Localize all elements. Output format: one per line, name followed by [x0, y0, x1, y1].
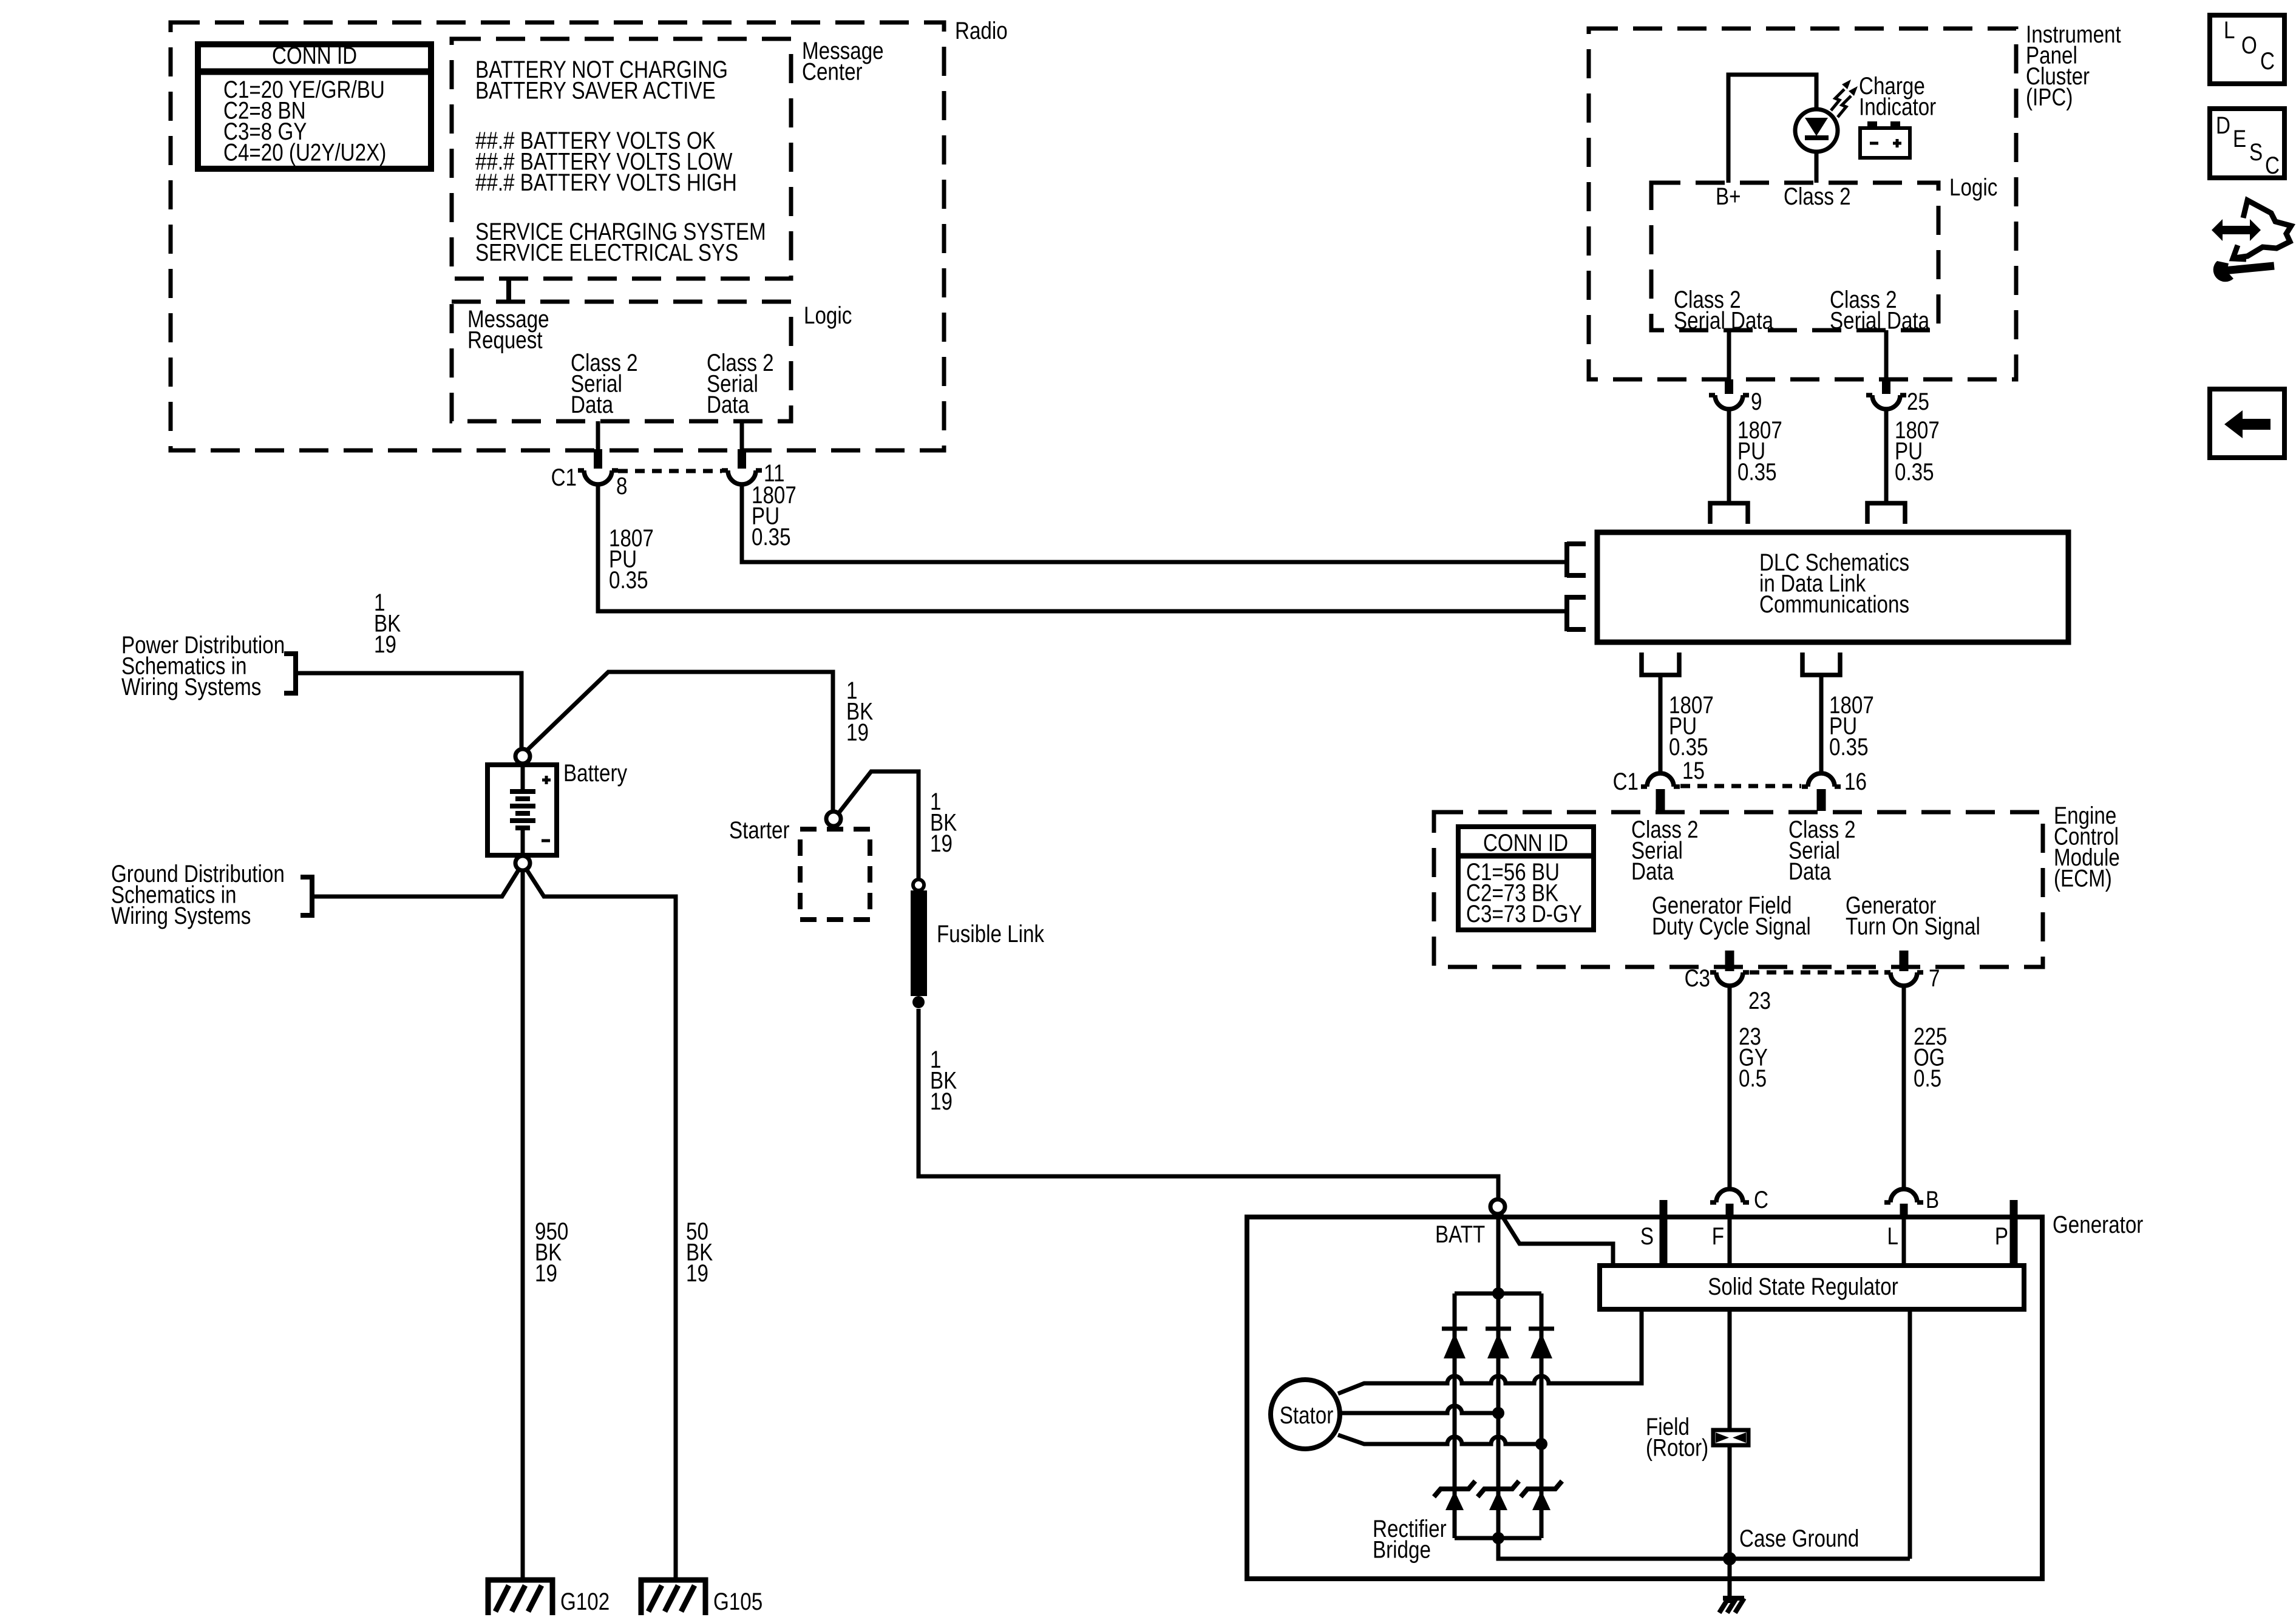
Generator box	[1247, 1217, 2042, 1579]
wire IPC logic to pin 25	[1884, 330, 1889, 379]
svg-text:9: 9	[1751, 388, 1762, 415]
battery internal top lead	[521, 765, 525, 791]
battery polarity -	[542, 839, 550, 842]
icon LOC box	[2210, 15, 2284, 84]
svg-text:Class 2: Class 2	[1784, 183, 1851, 209]
svg-text:Generator FieldDuty Cycle Sign: Generator FieldDuty Cycle Signal	[1652, 892, 1811, 940]
wire regulator L return to case ground	[1908, 1309, 1912, 1559]
svg-text:S: S	[1640, 1222, 1654, 1249]
svg-text:C: C	[2260, 47, 2275, 74]
svg-text:C1=56 BUC2=73 BKC3=73 D-GY: C1=56 BUC2=73 BKC3=73 D-GY	[1466, 858, 1582, 927]
svg-text:C3: C3	[1685, 964, 1710, 991]
svg-text:P: P	[1995, 1222, 2008, 1249]
rectifier diode D2 (middle top)	[1486, 1327, 1511, 1331]
wire BATT lead to regulator (S side)	[1500, 1213, 1613, 1263]
rectifier diode D3 (right top)	[1529, 1327, 1554, 1331]
svg-text:C1=20 YE/GR/BUC2=8 BNC3=8 GYC4: C1=20 YE/GR/BUC2=8 BNC3=8 GYC4=20 (U2Y/U…	[223, 76, 386, 166]
svg-text:7: 7	[1929, 964, 1940, 991]
pin C3-23 (ECM) male pin	[1725, 951, 1734, 971]
svg-text:Generator: Generator	[2053, 1211, 2143, 1238]
rectifier diode D1 (left top)	[1442, 1327, 1467, 1331]
svg-text:BATT: BATT	[1435, 1221, 1485, 1247]
wire stator phase 3 (bottom) to rectifier	[1338, 1435, 1541, 1444]
wire rectifier right branch	[1540, 1293, 1544, 1538]
svg-text:E: E	[2233, 125, 2246, 152]
svg-text:C1: C1	[1613, 768, 1639, 795]
charge indicator LED cathode bar	[1805, 135, 1829, 140]
ECM CONN ID header separator	[1461, 853, 1591, 859]
connector ID table (Radio CONN ID) outer box	[198, 44, 431, 169]
svg-text:ChargeIndicator: ChargeIndicator	[1859, 72, 1936, 120]
Solid State Regulator box	[1600, 1266, 2024, 1309]
wire rectifier top bus	[1455, 1292, 1541, 1296]
charge indicator LED diode triangle	[1805, 118, 1828, 136]
Field (Rotor) winding symbol	[1713, 1430, 1748, 1445]
svg-text:Class 2SerialData: Class 2SerialData	[1631, 816, 1699, 884]
svg-text:Starter: Starter	[729, 816, 790, 843]
wire B+ feed to charge indicator	[1728, 75, 1816, 183]
wire Logic to Radio C1 pin 11	[740, 421, 744, 450]
connector pin 7 female cup	[1884, 972, 1923, 986]
wire stator phase 1 (top) to regulator	[1338, 1309, 1642, 1394]
svg-text:16: 16	[1844, 768, 1867, 795]
svg-text:Fusible Link: Fusible Link	[937, 920, 1045, 947]
icon back arrow	[2224, 410, 2271, 438]
wire ground distribution to battery negative	[312, 869, 519, 897]
ground G105 symbol	[641, 1580, 705, 1615]
wire ECM 7 to generator B	[1902, 986, 1906, 1187]
svg-text:CONN ID: CONN ID	[1483, 829, 1568, 856]
connector C1 pin 8 female cup	[578, 470, 618, 484]
svg-text:25: 25	[1907, 388, 1929, 415]
svg-text:1BK19: 1BK19	[374, 589, 401, 657]
svg-text:23GY0.5: 23GY0.5	[1739, 1023, 1768, 1091]
svg-text:SERVICE CHARGING SYSTEMSERVICE: SERVICE CHARGING SYSTEMSERVICE ELECTRICA…	[475, 218, 766, 266]
svg-text:Class 2Serial Data: Class 2Serial Data	[1830, 286, 1930, 334]
rectifier zener Z2 (middle bottom)	[1478, 1481, 1519, 1497]
svg-text:Power DistributionSchematics i: Power DistributionSchematics inWiring Sy…	[121, 631, 285, 700]
wire rectifier middle branch	[1496, 1293, 1501, 1538]
svg-text:EngineControlModule(ECM): EngineControlModule(ECM)	[2054, 802, 2120, 892]
svg-text:1807PU0.35: 1807PU0.35	[1737, 416, 1782, 485]
svg-text:Ground DistributionSchematics: Ground DistributionSchematics inWiring S…	[111, 860, 285, 929]
wire IPC logic to pin 9	[1727, 330, 1731, 379]
svg-text:GeneratorTurn On Signal: GeneratorTurn On Signal	[1846, 892, 1980, 940]
pin C1-8 (Radio) male pin	[594, 449, 602, 469]
svg-text:Radio: Radio	[955, 17, 1008, 44]
svg-text:L: L	[2224, 16, 2235, 43]
svg-text:Class 2SerialData: Class 2SerialData	[1788, 816, 1856, 884]
svg-text:225OG0.5: 225OG0.5	[1914, 1023, 1947, 1091]
svg-text:C: C	[2265, 152, 2280, 178]
battery box	[487, 765, 557, 855]
svg-text:##.# BATTERY VOLTS OK##.# BATT: ##.# BATTERY VOLTS OK##.# BATTERY VOLTS …	[475, 127, 737, 195]
connector C1 dashed gang line (Radio)	[618, 469, 722, 473]
lightning flash arrows (indicator light rays)	[1831, 89, 1844, 110]
svg-text:950BK19: 950BK19	[535, 1218, 568, 1286]
svg-text:1807PU0.35: 1807PU0.35	[1895, 416, 1940, 485]
svg-text:1BK19: 1BK19	[846, 677, 873, 745]
pin 7 (ECM) male pin	[1900, 951, 1909, 971]
wire IPC pin 25 to DLC	[1884, 410, 1889, 503]
pin C1-15 (ECM) male pin	[1656, 789, 1665, 811]
svg-text:MessageRequest: MessageRequest	[467, 305, 549, 353]
svg-text:O: O	[2241, 32, 2257, 58]
connector generator terminal B female cup	[1884, 1189, 1923, 1202]
battery pictograph icon (IPC telltale)	[1860, 128, 1910, 158]
svg-text:23: 23	[1748, 987, 1771, 1014]
pin 9 (IPC) male pin	[1725, 379, 1733, 394]
connector pin 25 female cup	[1866, 395, 1906, 409]
fusible link bottom junction	[912, 996, 925, 1008]
node battery positive splice ring	[515, 749, 530, 764]
ground symbol (generator case earth)	[1719, 1598, 1744, 1613]
junction BATT bus	[1492, 1287, 1504, 1300]
Starter box	[800, 829, 870, 920]
icon DESC box	[2210, 109, 2284, 178]
connector C1 pin 15 female cup (ECM)	[1641, 773, 1680, 787]
wire Logic to Radio C1 pin 8	[596, 421, 600, 450]
svg-text:S: S	[2249, 138, 2263, 165]
Logic box (Radio logic)	[452, 302, 791, 421]
Logic box (IPC logic)	[1651, 183, 1938, 330]
svg-text:L: L	[1887, 1222, 1898, 1249]
svg-text:1BK19: 1BK19	[930, 1046, 957, 1114]
svg-text:Logic: Logic	[1949, 174, 1997, 200]
wire terminal L into regulator	[1902, 1219, 1906, 1266]
wire power distribution to battery positive	[296, 673, 521, 748]
staple terminal (DLC top, from IPC pin 9 wire)	[1710, 503, 1748, 524]
svg-text:F: F	[1712, 1222, 1724, 1249]
connector generator terminal C female cup	[1710, 1189, 1749, 1202]
svg-text:C: C	[1754, 1186, 1768, 1213]
svg-text:1807PU0.35: 1807PU0.35	[752, 481, 796, 550]
wire rectifier left branch	[1453, 1293, 1457, 1538]
node battery negative splice ring	[515, 856, 530, 870]
icon back-arrow box	[2210, 389, 2284, 458]
wire BATT node to rectifier bus	[1496, 1215, 1501, 1293]
svg-text:1BK19: 1BK19	[930, 788, 957, 856]
svg-text:Battery: Battery	[563, 759, 628, 786]
svg-text:1807PU0.35: 1807PU0.35	[1669, 691, 1714, 760]
svg-text:Logic: Logic	[804, 302, 852, 328]
DLC Schematics box	[1597, 532, 2068, 642]
fusible link F1 element	[911, 890, 927, 996]
svg-text:8: 8	[616, 472, 627, 499]
connector ID table (ECM CONN ID) outer box	[1458, 827, 1594, 930]
pin C1-11 (Radio) male pin	[738, 449, 746, 469]
wire terminal F into regulator	[1728, 1219, 1732, 1266]
svg-text:BATTERY NOT CHARGINGBATTERY SA: BATTERY NOT CHARGINGBATTERY SAVER ACTIVE	[475, 56, 728, 104]
battery polarity +	[542, 776, 551, 784]
svg-text:DLC Schematicsin Data LinkComm: DLC Schematicsin Data LinkCommunications	[1759, 549, 1909, 617]
wire battery negative to G105 run	[526, 869, 676, 1579]
charge indicator LED circle	[1795, 109, 1838, 152]
connector C3 dashed gang line	[1750, 971, 1884, 975]
junction case ground	[1723, 1552, 1736, 1565]
wire DLC to ECM C1 pin 16	[1819, 675, 1824, 773]
svg-text:Class 2SerialData: Class 2SerialData	[707, 349, 774, 418]
off-page bracket (power distribution)	[284, 651, 296, 696]
wire stator phase 2 (middle) to rectifier	[1340, 1406, 1498, 1413]
Radio box (Radio module outline)	[171, 22, 944, 450]
wire LED to IPC logic	[1815, 151, 1819, 183]
battery plates	[510, 792, 535, 828]
svg-text:RectifierBridge: RectifierBridge	[1373, 1515, 1447, 1563]
rectifier zener Z3 (right bottom)	[1521, 1481, 1562, 1497]
ground G102 symbol	[488, 1580, 552, 1615]
svg-text:MessageCenter: MessageCenter	[802, 37, 884, 85]
wire starter node to fusible link	[838, 771, 919, 880]
Engine Control Module box (ECM)	[1434, 812, 2043, 967]
staple terminal (DLC bottom, to ECM pin 15 wire)	[1642, 653, 1679, 675]
terminal stub S	[1660, 1200, 1668, 1266]
connector C1 pin 16 female cup (ECM)	[1802, 773, 1841, 787]
battery internal bottom lead	[521, 828, 525, 855]
pin B (generator) male pin	[1900, 1204, 1908, 1219]
svg-text:Stator: Stator	[1280, 1402, 1334, 1428]
svg-text:1807PU0.35: 1807PU0.35	[1829, 691, 1874, 760]
wire rectifier bottom bus	[1455, 1536, 1541, 1541]
staple terminal (DLC top, from IPC pin 25 wire)	[1867, 503, 1905, 524]
pin C1-16 (ECM) male pin	[1817, 789, 1826, 811]
wire field rotor to case ground	[1728, 1447, 1732, 1559]
svg-text:Solid State Regulator: Solid State Regulator	[1708, 1273, 1898, 1300]
wire pin 11 to DLC schematics (upper run)	[742, 485, 1565, 562]
Stator winding circle	[1271, 1380, 1340, 1449]
Instrument Panel Cluster box (IPC)	[1589, 29, 2016, 379]
wire rectifier to case ground run	[1498, 1538, 1910, 1559]
svg-text:B: B	[1926, 1186, 1939, 1213]
icon diagnostic (double arrow, hood outline, wrench)	[2212, 219, 2261, 241]
wire case ground to chassis	[1728, 1559, 1732, 1603]
terminal stub P	[2010, 1200, 2018, 1266]
svg-text:InstrumentPanelCluster(IPC): InstrumentPanelCluster(IPC)	[2026, 21, 2121, 110]
wire pin 8 to DLC schematics (lower run)	[598, 485, 1565, 611]
wire IPC pin 9 to DLC	[1727, 410, 1731, 503]
off-page connector bracket (upper wire into DLC)	[1567, 542, 1586, 577]
rectifier zener Z1 (left bottom)	[1434, 1481, 1475, 1497]
svg-text:Class 2Serial Data: Class 2Serial Data	[1674, 286, 1774, 334]
svg-text:Case Ground: Case Ground	[1739, 1525, 1859, 1551]
junction rectifier bottom bus	[1492, 1532, 1504, 1544]
wire regulator F to field rotor	[1728, 1309, 1732, 1428]
svg-text:50BK19: 50BK19	[686, 1218, 713, 1286]
connector pin 9 female cup	[1709, 395, 1749, 409]
staple terminal (DLC bottom, to ECM pin 16 wire)	[1802, 653, 1840, 675]
Message Center box	[452, 39, 791, 279]
svg-text:Field(Rotor): Field(Rotor)	[1646, 1413, 1708, 1461]
svg-text:15: 15	[1682, 757, 1705, 784]
connector C1 dashed gang line (ECM)	[1680, 784, 1801, 788]
wire Message Center to Logic (message request stub)	[506, 279, 511, 302]
node starter feed splice ring	[826, 812, 841, 826]
svg-text:G102: G102	[560, 1588, 610, 1615]
off-page bracket (ground distribution)	[301, 875, 312, 918]
off-page connector bracket (lower wire into DLC)	[1567, 595, 1586, 631]
svg-text:Class 2SerialData: Class 2SerialData	[571, 349, 638, 418]
svg-text:CONN ID: CONN ID	[272, 42, 357, 69]
node BATT splice ring	[1490, 1199, 1505, 1214]
wire ECM C3-23 to generator C	[1728, 986, 1732, 1187]
junction stator phase 2 / middle branch	[1492, 1407, 1504, 1419]
wire battery positive to starter run (diagonal)	[526, 672, 833, 812]
svg-text:D: D	[2216, 112, 2230, 138]
CONN ID table header separator	[201, 69, 428, 75]
svg-text:1807PU0.35: 1807PU0.35	[609, 524, 654, 593]
svg-text:B+: B+	[1716, 183, 1741, 209]
junction stator phase 3 / right branch	[1535, 1438, 1547, 1450]
wire fusible link to generator BATT	[919, 1009, 1498, 1198]
connector C1 pin 11 female cup	[722, 470, 762, 484]
svg-text:C1: C1	[551, 464, 577, 490]
wire DLC to ECM C1 pin 15	[1659, 675, 1663, 773]
wire battery negative to G102	[521, 870, 525, 1579]
fusible link top terminal ring	[913, 880, 924, 890]
pin C (generator) male pin	[1726, 1204, 1734, 1219]
svg-text:G105: G105	[713, 1588, 763, 1615]
connector C3 pin 23 female cup	[1710, 972, 1749, 986]
pin 25 (IPC) male pin	[1882, 379, 1890, 394]
